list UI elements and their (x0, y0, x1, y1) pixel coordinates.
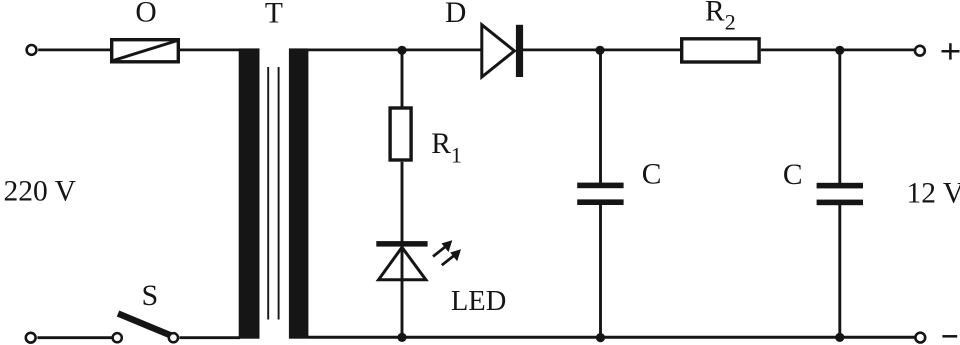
LED light arrow 1 head (442, 240, 453, 252)
wire: input terminal to fuse (38, 49, 111, 52)
switch S blade (118, 314, 171, 336)
capacitor C1 top plate (577, 183, 623, 189)
resistor R2 body (682, 39, 759, 62)
diode D triangle (482, 25, 515, 77)
node: junction bottom of LED branch (397, 333, 406, 342)
LED light arrow 1 shaft (433, 246, 447, 257)
svg-text:O: O (135, 0, 156, 29)
svg-text:R1: R1 (431, 128, 462, 167)
terminal: AC input top-left (27, 45, 37, 55)
resistor R1 body (390, 108, 411, 160)
svg-text:220 V: 220 V (4, 175, 76, 207)
wire: LED to bottom rail (401, 247, 404, 338)
svg-text:C: C (783, 159, 803, 191)
svg-text:R2: R2 (705, 0, 736, 34)
LED light arrow 2 shaft (442, 255, 456, 266)
transformer T primary winding bar (239, 48, 260, 338)
fuse O body (112, 40, 179, 62)
transformer T secondary winding bar (289, 48, 309, 338)
node: junction top of C2 (835, 46, 844, 55)
svg-text:12 V: 12 V (907, 177, 960, 209)
svg-text:S: S (141, 279, 158, 312)
terminal: − output (915, 333, 925, 343)
capacitor C2 bottom plate (817, 200, 863, 206)
svg-text:T: T (265, 0, 283, 30)
transformer core line left (267, 67, 269, 320)
capacitor C2 top plate (817, 183, 863, 189)
wire: input bottom terminal to switch (37, 336, 112, 339)
switch S left contact (113, 333, 122, 342)
wire: secondary top to diode anode (308, 49, 482, 52)
node: junction top of R1 branch (397, 46, 406, 55)
terminal: + output (915, 46, 925, 56)
label + vertical stroke (949, 43, 952, 59)
terminal: AC input bottom-left (26, 333, 36, 343)
LED triangle (379, 247, 426, 279)
wire: C2 top connection (838, 50, 841, 184)
LED light arrow 2 head (450, 249, 461, 261)
wire: fuse to transformer primary (180, 49, 240, 52)
wire: C1 bottom connection (599, 205, 602, 338)
wire: switch to transformer primary bottom (180, 336, 241, 339)
node: junction top of C1 (595, 46, 604, 55)
node: junction bottom of C2 (835, 333, 844, 342)
transformer core line right (278, 67, 280, 320)
wire: secondary bottom rail (308, 336, 916, 339)
wire: C2 bottom connection (838, 205, 841, 338)
label − (942, 335, 957, 338)
node: junction bottom of C1 (596, 333, 605, 342)
LED cathode bar (376, 241, 427, 247)
svg-text:LED: LED (451, 286, 506, 317)
wire: resistor R1 to LED (401, 162, 404, 242)
fuse O diagonal (113, 41, 178, 61)
svg-text:D: D (445, 0, 466, 29)
label + horizontal stroke (942, 50, 960, 53)
capacitor C1 bottom plate (577, 199, 623, 205)
wire: diode cathode to R2 (523, 49, 681, 52)
switch S right contact (169, 333, 178, 342)
wire: C1 top connection (599, 50, 602, 184)
diode D cathode bar (516, 25, 523, 77)
svg-text:C: C (642, 159, 662, 191)
wire: R2 to + output terminal (761, 49, 915, 52)
wire: node to resistor R1 (401, 50, 404, 107)
